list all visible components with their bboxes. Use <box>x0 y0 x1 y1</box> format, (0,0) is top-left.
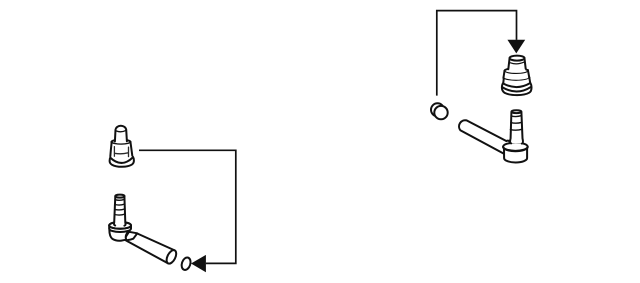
right tie rod end <box>459 110 528 162</box>
top ellipse <box>510 56 525 61</box>
housing flange front arc <box>503 147 528 151</box>
rod open end ellipse <box>165 249 179 266</box>
tier2 side lines <box>504 70 530 78</box>
flange outline <box>110 157 134 167</box>
neck mold arc <box>116 130 126 131</box>
stud thread lines <box>115 199 126 215</box>
tier3 side lines <box>503 78 530 84</box>
flange front rim arc <box>111 158 133 163</box>
flange silhouette fill <box>110 156 134 167</box>
housing body <box>504 147 527 162</box>
tier2 body fill <box>504 71 530 79</box>
top cylinder fill <box>508 58 526 72</box>
inner band lines <box>114 147 128 157</box>
flange seam arc <box>502 87 531 92</box>
cone body side lines <box>110 142 132 156</box>
cone top ellipse <box>111 140 130 145</box>
flange outer outline <box>502 83 532 95</box>
stud top ellipse <box>511 110 521 113</box>
rod tube fill <box>459 120 506 154</box>
tier3 body fill <box>503 78 530 85</box>
flange silhouette fill <box>502 83 532 95</box>
flange top ellipse <box>109 222 131 229</box>
right boot (stepped dust cover) <box>502 56 532 96</box>
tier2 top ellipse <box>504 68 528 74</box>
housing flange disc <box>109 222 131 232</box>
stud <box>114 196 126 226</box>
top mold arc <box>510 62 524 64</box>
left tie rod end <box>109 195 178 266</box>
cone body fill <box>110 142 132 162</box>
rod tube fill <box>126 233 175 263</box>
stud <box>510 112 523 144</box>
top cylinder side lines <box>508 58 525 70</box>
right arrow (down) <box>507 40 525 54</box>
neck outline <box>115 126 127 142</box>
right bushing ring <box>431 103 448 119</box>
stud top ellipse <box>115 195 124 198</box>
rod tube lines <box>459 120 506 154</box>
housing flange front arc <box>109 225 131 228</box>
collar socket <box>126 232 138 240</box>
flange top rim front arc <box>503 83 530 87</box>
left leader line <box>139 150 236 263</box>
left arrow <box>191 255 206 272</box>
left boot (dust cover) <box>110 126 134 167</box>
rod socket end arc <box>505 141 511 154</box>
o-ring <box>180 256 192 271</box>
tier3 top ellipse <box>503 75 529 81</box>
neck fill <box>115 126 127 143</box>
stud thread lines <box>510 116 522 131</box>
flange ellipse <box>503 143 528 152</box>
right leader line <box>437 11 517 96</box>
rod tube lines <box>126 233 175 263</box>
housing body <box>109 227 129 241</box>
